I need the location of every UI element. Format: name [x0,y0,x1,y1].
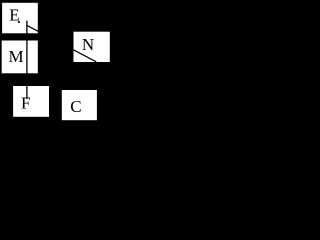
box F [13,86,49,117]
box E [2,3,38,34]
comma after E [18,21,20,23]
svg-text:F: F [21,94,30,113]
box N [74,32,110,62]
svg-text:M: M [9,47,24,66]
svg-text:C: C [70,97,81,116]
box M [2,41,38,74]
wire diagonal E-N [27,25,97,62]
box C [62,90,97,120]
wire vertical E-M-F [26,21,28,99]
svg-text:N: N [82,35,94,54]
